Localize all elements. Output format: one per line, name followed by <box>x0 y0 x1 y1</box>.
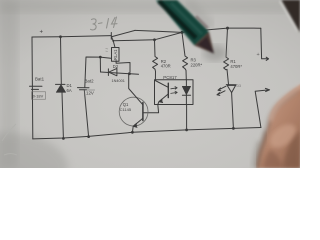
svg-text:0-18V: 0-18V <box>33 93 44 98</box>
svg-text:Bat1: Bat1 <box>35 77 45 82</box>
node Q1 emitter bottom <box>131 131 134 134</box>
svg-text:PC817: PC817 <box>163 75 177 80</box>
node Bat2 bottom <box>87 135 90 138</box>
svg-text:+: + <box>257 52 260 58</box>
bottom rail <box>33 128 261 139</box>
wire opto emitter to Q1 base <box>144 105 159 113</box>
svg-text:220R*: 220R* <box>191 62 203 67</box>
opto LED <box>185 80 187 105</box>
node D1 top <box>59 35 62 38</box>
wire relay branch to R2 R3 <box>113 32 182 40</box>
node D2 right <box>128 72 131 75</box>
svg-text:C1145: C1145 <box>120 107 132 112</box>
pencil <box>156 0 214 54</box>
optocoupler U1 PC817 box <box>155 80 194 105</box>
diode D1 <box>60 37 63 84</box>
svg-text:+: + <box>40 30 44 36</box>
wire switch to relay coil <box>111 37 115 48</box>
svg-text:6A: 6A <box>67 88 72 93</box>
wire opto to bottom rail <box>186 105 188 130</box>
diode D2 1N4001 <box>99 57 101 72</box>
faint pencil arcs bottom-left <box>2 124 17 155</box>
node D1 bottom <box>62 137 65 140</box>
node R2 top <box>153 38 156 41</box>
node Bat2 relay <box>99 56 102 59</box>
battery Bat2 <box>85 57 100 87</box>
paper background <box>0 0 300 168</box>
table corner top-right <box>280 1 298 31</box>
resistor R3 <box>182 32 188 79</box>
finger <box>251 83 303 168</box>
node R1 top <box>226 27 229 30</box>
relay aux marks <box>106 49 109 52</box>
wire top rail left <box>32 36 111 37</box>
svg-text:RLA1: RLA1 <box>113 49 118 60</box>
relay contact SW1 <box>110 33 112 40</box>
svg-text:D3: D3 <box>237 84 241 88</box>
wire left rail <box>31 37 34 139</box>
node relay top <box>112 40 114 42</box>
node opto bottom <box>185 129 188 132</box>
output minus arrow <box>255 88 269 127</box>
svg-text:12V: 12V <box>86 90 94 95</box>
battery Bat1 <box>30 85 43 87</box>
resistor R1 <box>224 28 229 84</box>
transistor Q1 C1145 <box>119 97 148 126</box>
pencil shadow <box>203 45 227 61</box>
wire top rail right <box>135 28 261 32</box>
relay coil RLA1 <box>112 48 120 62</box>
label 3-14 date <box>91 17 118 30</box>
LED D3 <box>226 84 236 86</box>
svg-text:470R*: 470R* <box>230 64 242 69</box>
opto arrows <box>171 87 177 90</box>
node LED bottom <box>232 127 235 130</box>
svg-text:D2: D2 <box>113 64 119 69</box>
svg-text:1N4001: 1N4001 <box>112 79 125 83</box>
label 0-18V box <box>32 92 46 99</box>
output plus arrow <box>261 28 269 60</box>
svg-text:R1: R1 <box>230 59 236 64</box>
node R3 top <box>181 31 184 34</box>
svg-text:470R: 470R <box>161 64 171 69</box>
opto phototransistor <box>167 83 169 97</box>
resistor R2 <box>153 40 158 80</box>
svg-text:Bat2: Bat2 <box>85 79 95 84</box>
